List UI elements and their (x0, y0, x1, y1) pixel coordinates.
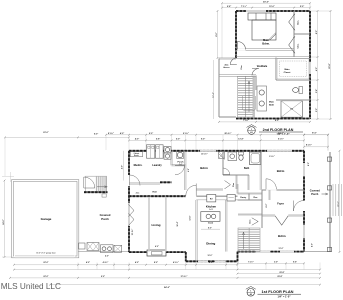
bath tub (250, 152, 262, 165)
1F bottom dim row 2 (10, 277, 320, 279)
1F top dim row 0 left overall (5, 136, 129, 138)
svg-text:Tile: Tile (290, 109, 293, 111)
svg-text:8′-0″: 8′-0″ (216, 32, 218, 36)
bath vanity mid (228, 152, 237, 161)
porch nook south wall (172, 164, 186, 166)
dining bay west wall (185, 252, 187, 261)
living door opening (186, 195, 197, 197)
hall east wall segment (236, 184, 238, 194)
mudroom closet 1 (147, 145, 155, 158)
2F closet bifold door lower (289, 36, 295, 54)
svg-text:Closet: Closet (284, 71, 291, 74)
svg-text:23′-0″: 23′-0″ (43, 132, 48, 134)
2F wall closets divider (294, 32, 310, 34)
svg-text:Living: Living (151, 223, 160, 227)
1F bottom dim row right B (238, 273, 321, 275)
svg-text:9′-0″: 9′-0″ (94, 134, 98, 136)
house exterior bottom wall bdrm (238, 251, 305, 253)
svg-text:9x13: 9x13 (209, 209, 213, 211)
svg-text:1st FLOOR PLAN: 1st FLOOR PLAN (262, 289, 294, 294)
2F exterior wall bottom (236, 118, 310, 120)
top bedroom door arc (266, 179, 276, 190)
2F title circle A3 (248, 127, 256, 135)
1F title circle A2 (247, 289, 255, 297)
2F bed body (252, 20, 276, 40)
east wall front door opening (303, 201, 305, 212)
porch sink counter (101, 245, 114, 253)
svg-text:13′-0″: 13′-0″ (279, 248, 284, 250)
svg-text:MLS United LLC: MLS United LLC (1, 282, 61, 291)
garage stair door arc (84, 177, 95, 188)
2F toilet (299, 87, 303, 94)
mudroom entry door arc (130, 175, 141, 186)
1F right dim line (339, 151, 341, 252)
right porch post 4 (327, 247, 331, 251)
stairs 1F (238, 228, 260, 252)
svg-text:5′-0″: 5′-0″ (300, 6, 304, 8)
kitchen north counter (196, 195, 237, 197)
svg-text:3′-0″: 3′-0″ (316, 108, 318, 112)
2F stair rail U (243, 96, 256, 111)
svg-text:Mudrm.: Mudrm. (134, 164, 143, 167)
svg-text:Porch: Porch (178, 160, 185, 163)
2F jut top wall (219, 57, 236, 59)
1F left dim mudroom (123, 151, 125, 181)
svg-text:9′-0″: 9′-0″ (149, 133, 153, 135)
2F wall vestibule-stair south (219, 74, 256, 76)
svg-text:Porch: Porch (101, 217, 109, 221)
stair closet door chevron (252, 218, 258, 225)
svg-text:16′-4″: 16′-4″ (176, 221, 179, 226)
closet door diag mid bdrm (219, 154, 225, 160)
right covered porch edge (328, 152, 330, 252)
svg-text:94′-0″: 94′-0″ (164, 286, 171, 289)
svg-text:1/4″ = 1′-0″: 1/4″ = 1′-0″ (278, 296, 292, 299)
svg-text:Access: Access (223, 66, 229, 69)
2F jut left wall (218, 59, 220, 118)
bath door arc mid (223, 168, 230, 175)
kitchen wall appliance (227, 195, 235, 202)
svg-text:4′-0″: 4′-0″ (86, 261, 90, 264)
rear porch door arc (175, 165, 185, 175)
2F vestibule closet door arc (230, 58, 237, 65)
stair hall north wall (238, 213, 262, 215)
porch equip box 1 (79, 243, 86, 249)
2F title roof mark (247, 125, 257, 128)
porch equip box 3 with X (114, 245, 122, 252)
2F exterior wall left upper (235, 11, 237, 58)
right porch steps (332, 184, 334, 216)
svg-text:29′-8″: 29′-8″ (277, 276, 282, 278)
2F top dim line segments (222, 7, 310, 9)
svg-text:Ref: Ref (210, 198, 213, 200)
top wall window bdrm right (267, 150, 292, 152)
house exterior west wall (128, 151, 130, 252)
svg-text:3′-8″: 3′-8″ (316, 89, 318, 93)
tub-foyer wall (259, 151, 261, 190)
svg-text:Kitchen: Kitchen (206, 205, 217, 209)
2F wall closets bottom / bath top (236, 56, 310, 58)
2F wall main closet south (276, 78, 310, 80)
svg-text:Main: Main (285, 69, 291, 71)
1F left dim line garage (4, 181, 6, 258)
2F vestibule door arc right (252, 69, 259, 76)
svg-text:8′-0″: 8′-0″ (311, 243, 313, 247)
1F top dim row 1 (106, 134, 328, 136)
2F exterior wall top (236, 10, 310, 12)
garage stairs arrow (97, 186, 107, 188)
svg-text:22′-0″: 22′-0″ (43, 276, 48, 278)
house exterior east wall (303, 151, 305, 252)
2F bedroom door arc (238, 42, 246, 50)
svg-text:13′-6″: 13′-6″ (190, 215, 192, 220)
kitchen-dining west wall (195, 200, 197, 261)
kitchen fridge (207, 195, 216, 202)
living ceiling band west (148, 197, 150, 252)
svg-text:Bdrm: Bdrm (278, 234, 286, 238)
foyer west wall (268, 190, 270, 200)
2F shower (281, 101, 303, 117)
dining bay windows (198, 260, 208, 262)
hall south wall right / bedroom north (262, 188, 304, 190)
right porch post 3 (327, 218, 331, 222)
2F bed headboard (248, 13, 276, 20)
2F bed fold corner (270, 34, 276, 40)
2F bedroom door opening (238, 49, 246, 51)
svg-text:16′-0″x7′-0″ garage door: 16′-0″x7′-0″ garage door (36, 252, 56, 254)
svg-text:Pantry: Pantry (240, 196, 247, 199)
svg-text:1: 1 (251, 129, 252, 131)
house exterior top wall (129, 150, 304, 152)
svg-text:5′-0″: 5′-0″ (176, 139, 180, 141)
hall-living wall (129, 195, 186, 197)
top bedroom door opening (266, 189, 277, 191)
svg-text:Bath: Bath (244, 167, 250, 170)
svg-text:Clos.: Clos. (297, 43, 299, 49)
svg-text:8′-0″: 8′-0″ (266, 203, 268, 207)
bath toilet mid (239, 152, 244, 155)
west wall door opening (128, 175, 130, 186)
east wall window lower (303, 225, 305, 238)
svg-text:Bench: Bench (134, 155, 139, 157)
2F window top wall (246, 10, 266, 12)
svg-text:22′-0″: 22′-0″ (43, 262, 48, 264)
2F closet bifold door upper (289, 14, 295, 31)
svg-text:4′-6″: 4′-6″ (187, 168, 190, 172)
kitchen-dining east wall (225, 200, 227, 252)
svg-text:Island: Island (208, 223, 213, 225)
svg-text:Bdrm: Bdrm (277, 169, 285, 173)
linen closet x-box (219, 152, 225, 159)
svg-text:Vestibule: Vestibule (257, 65, 268, 68)
porch equip box 2 with X (87, 243, 99, 251)
right porch floor line south (304, 251, 331, 253)
svg-text:9′-8″: 9′-8″ (227, 6, 231, 8)
2F bath vanity (257, 86, 267, 111)
svg-text:10′-0″: 10′-0″ (207, 255, 212, 257)
west wall window chevrons (128, 203, 130, 226)
2F exterior wall right (309, 11, 311, 119)
1F bottom extension lines (77, 263, 79, 270)
svg-text:Bath: Bath (269, 103, 275, 106)
svg-text:8′-0″: 8′-0″ (316, 30, 318, 34)
svg-text:24′-0″: 24′-0″ (2, 219, 5, 224)
svg-text:4′-0″: 4′-0″ (105, 255, 109, 258)
svg-text:A3: A3 (250, 131, 252, 134)
laundry dryer (164, 153, 171, 159)
2F wall bath west (255, 76, 257, 91)
svg-text:9′-6″: 9′-6″ (293, 262, 297, 264)
svg-text:5′-8″: 5′-8″ (156, 139, 160, 141)
1st floor plan group (2, 131, 342, 299)
1F bottom dim row 1b (14, 269, 320, 271)
svg-text:Dining: Dining (206, 242, 215, 246)
svg-text:4′-0″: 4′-0″ (135, 261, 139, 264)
2F stairs (238, 77, 254, 118)
mudroom cabinet bench (130, 152, 142, 157)
garage stairs (86, 176, 107, 191)
east wall window upper (303, 163, 305, 176)
svg-text:Attic: Attic (136, 191, 140, 194)
2F stairs arrow (248, 82, 250, 112)
svg-text:Bdrm.: Bdrm. (262, 41, 270, 45)
svg-text:10′-0″: 10′-0″ (278, 133, 283, 135)
bottom bedroom north wall (262, 214, 275, 216)
svg-text:20′-8″: 20′-8″ (329, 63, 331, 68)
svg-text:4′-0″: 4′-0″ (135, 138, 139, 141)
2F wall wc south (276, 98, 310, 100)
svg-text:4′-0″: 4′-0″ (315, 67, 318, 71)
svg-text:Main: Main (263, 38, 269, 42)
front door arc (294, 201, 305, 212)
right porch post 1 (327, 157, 331, 161)
svg-text:29′-8″: 29′-8″ (279, 272, 284, 274)
garage door opening (14, 254, 75, 257)
svg-text:Main: Main (269, 102, 275, 104)
hall south walls mid (196, 188, 223, 190)
2F right dim line inner (317, 11, 319, 119)
hall north wall dark segment (160, 181, 172, 183)
house exterior bottom wall living (129, 251, 186, 253)
stair side box (102, 194, 106, 197)
svg-text:Hall: Hall (152, 191, 156, 193)
1F bottom dim row 3 overall (50, 284, 320, 286)
svg-text:9′-0″: 9′-0″ (101, 276, 105, 278)
svg-text:4′-0″: 4′-0″ (155, 245, 159, 248)
svg-text:30′-0″: 30′-0″ (263, 2, 270, 4)
2F wall closets west (292, 11, 294, 57)
bottom bedroom double door chevron (275, 216, 288, 225)
2F window right wall (309, 62, 311, 74)
2F left dim line (217, 11, 219, 58)
porch nook west wall (170, 151, 172, 166)
2F dim extension lines (309, 3, 311, 11)
svg-text:4′-0″: 4′-0″ (120, 132, 124, 135)
2F top dim line overall (222, 2, 310, 4)
1F title roof mark (246, 286, 256, 289)
svg-text:Laundry: Laundry (152, 164, 162, 167)
1F top dim extensions (105, 135, 107, 150)
svg-text:Foyer: Foyer (277, 203, 284, 206)
top wall window bdrm mid (200, 150, 216, 152)
bath mid walls (221, 151, 223, 175)
svg-text:8′-0″: 8′-0″ (154, 262, 158, 264)
svg-text:Garage: Garage (41, 217, 52, 221)
living ceiling band east (165, 197, 167, 252)
2F right dim line outer (330, 11, 332, 119)
1F bottom dim row 1 (14, 264, 238, 266)
svg-text:8′-0″: 8′-0″ (308, 162, 310, 166)
svg-text:2nd FLOOR PLAN: 2nd FLOOR PLAN (263, 128, 294, 132)
living door arc (186, 184, 196, 196)
svg-text:4′-0″: 4′-0″ (121, 165, 124, 169)
2F wall main closet west (274, 58, 276, 81)
2F wall stair east (252, 76, 254, 120)
svg-text:9′-0″: 9′-0″ (209, 262, 213, 264)
svg-text:9′-0″: 9′-0″ (201, 139, 205, 141)
1F top dim row 2 (129, 139, 304, 141)
dining bay south wall (186, 260, 238, 262)
right porch up arrow (322, 193, 328, 195)
right porch post 2 (327, 186, 331, 190)
garage walls (12, 180, 79, 258)
2F main closet shelves (277, 59, 309, 80)
2nd floor plan group (212, 2, 331, 151)
1F bottom dim row right A (238, 262, 305, 264)
laundry washer (164, 147, 171, 153)
svg-text:Clos.: Clos. (297, 20, 299, 26)
bottom wall windows bdrm (256, 251, 270, 253)
svg-text:3′-0″: 3′-0″ (274, 262, 278, 264)
bedroom closet chevron doors (225, 181, 231, 189)
mudroom closet 2 (156, 145, 164, 158)
svg-text:15′-0″: 15′-0″ (269, 6, 274, 8)
svg-text:Covered: Covered (100, 213, 111, 217)
2F jut bottom light (219, 116, 236, 118)
left covered porch floor edge (78, 250, 129, 252)
svg-text:Porch: Porch (311, 193, 319, 196)
2F wall bedroom south (236, 48, 294, 50)
svg-text:Clos.: Clos. (253, 197, 258, 199)
pantry closet cells walls (238, 192, 263, 194)
garage stairs south wall (84, 191, 108, 193)
hall north wall left (129, 182, 160, 184)
svg-text:Bdrm: Bdrm (200, 166, 208, 170)
fireplace (147, 250, 166, 256)
kitchen island (201, 212, 220, 222)
dining bay east wall (237, 252, 239, 262)
svg-text:1: 1 (250, 291, 251, 293)
svg-text:A2: A2 (250, 293, 252, 296)
svg-text:13′-8″: 13′-8″ (238, 139, 243, 141)
stairs 1F arrow (243, 233, 245, 249)
water heater (177, 152, 184, 159)
mid bedroom west wall (184, 151, 186, 190)
